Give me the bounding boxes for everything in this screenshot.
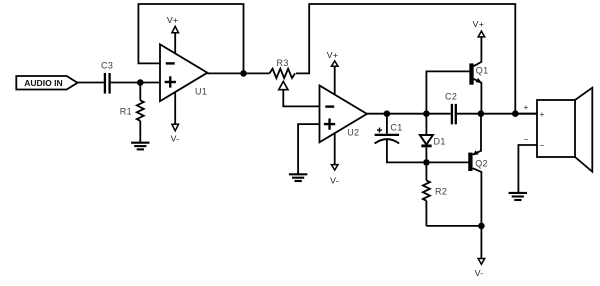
wire feedback U1 output to inverting input bbox=[138, 4, 243, 73]
resistor R1 bbox=[120, 100, 144, 121]
svg-text:R2: R2 bbox=[435, 186, 447, 196]
svg-text:V-: V- bbox=[330, 175, 339, 185]
potentiometer R3 wiper arrow bbox=[279, 81, 288, 89]
capacitor C1 (polarized) bbox=[375, 114, 403, 144]
transistor Q2 bbox=[470, 114, 488, 226]
svg-text:C1: C1 bbox=[390, 123, 402, 133]
power V- pin of U2 bbox=[330, 133, 339, 185]
node at Q2 collector / V- bbox=[478, 223, 485, 230]
svg-text:D1: D1 bbox=[434, 137, 446, 147]
svg-text:R1: R1 bbox=[120, 106, 132, 116]
wire output node to speaker + terminal bbox=[515, 113, 537, 115]
wire Q1 base from rail node bbox=[426, 71, 469, 113]
op-amp U1 bbox=[160, 44, 207, 101]
wire audio-in to C3 bbox=[78, 82, 104, 84]
capacitor C3 bbox=[101, 60, 113, 93]
node at speaker feedback tap bbox=[512, 110, 519, 117]
wire node to R1 bbox=[139, 83, 141, 101]
wire C3 to U1 + input bbox=[111, 82, 160, 84]
svg-text:V-: V- bbox=[475, 268, 484, 278]
svg-text:V+: V+ bbox=[473, 19, 484, 29]
node at U1 output bbox=[240, 70, 247, 77]
node at R2 top bbox=[423, 159, 430, 166]
power V+ pin of Q1 bbox=[473, 19, 485, 37]
wire C1 bottom to lower rail bbox=[387, 140, 427, 163]
wire U2 output rail (left of C2) bbox=[367, 113, 451, 115]
svg-text:V-: V- bbox=[171, 133, 180, 143]
svg-text:C3: C3 bbox=[101, 60, 113, 70]
svg-text:−: − bbox=[524, 135, 529, 144]
svg-text:V+: V+ bbox=[327, 50, 338, 60]
svg-text:+: + bbox=[524, 103, 529, 112]
wire R3 right terminal to output node (top rail) bbox=[296, 4, 515, 114]
capacitor C2 bbox=[445, 91, 457, 124]
svg-text:Q2: Q2 bbox=[475, 159, 488, 169]
op-amp U2 bbox=[320, 86, 367, 143]
svg-text:V+: V+ bbox=[167, 15, 178, 25]
svg-text:U1: U1 bbox=[195, 87, 207, 97]
svg-text:Q1: Q1 bbox=[476, 65, 489, 75]
potentiometer R3 body bbox=[270, 58, 295, 78]
power V- pin of U1 bbox=[171, 92, 180, 143]
wire lower rail to Q2 base bbox=[426, 161, 469, 163]
resistor R2 bbox=[423, 162, 447, 226]
wire U2 output rail (right of C2) bbox=[457, 113, 537, 115]
ground under U2 + input bbox=[289, 174, 307, 181]
svg-text:R3: R3 bbox=[277, 58, 289, 68]
wire speaker - terminal to ground bbox=[518, 145, 537, 193]
power V- pin of Q2 bbox=[475, 226, 485, 278]
wire R1 to ground bbox=[139, 121, 141, 143]
transistor Q1 bbox=[472, 37, 489, 114]
svg-text:−: − bbox=[540, 141, 545, 150]
speaker LS1 bbox=[537, 88, 592, 172]
node at R1 tap bbox=[137, 79, 144, 86]
svg-text:C2: C2 bbox=[445, 91, 457, 101]
power V+ pin of U1 bbox=[167, 15, 179, 54]
ground under speaker bbox=[509, 193, 527, 200]
net label AUDIO IN bbox=[16, 76, 77, 90]
power V+ pin of U2 bbox=[327, 50, 338, 95]
node at C1 tap bbox=[384, 110, 391, 117]
wire R2 bottom to Q2 collector line bbox=[426, 225, 481, 227]
wire R3 wiper to U2 inverting input bbox=[283, 90, 319, 107]
svg-text:AUDIO IN: AUDIO IN bbox=[24, 78, 63, 88]
svg-text:U2: U2 bbox=[347, 127, 359, 137]
node at Q1 emitter junction bbox=[478, 110, 485, 117]
svg-text:+: + bbox=[540, 110, 545, 119]
diode D1 bbox=[420, 114, 446, 163]
ground under R1 bbox=[131, 143, 149, 150]
wire U1 output bbox=[207, 72, 269, 74]
node at D1 top bbox=[423, 110, 430, 117]
wire U2 + input to ground bbox=[298, 124, 319, 174]
